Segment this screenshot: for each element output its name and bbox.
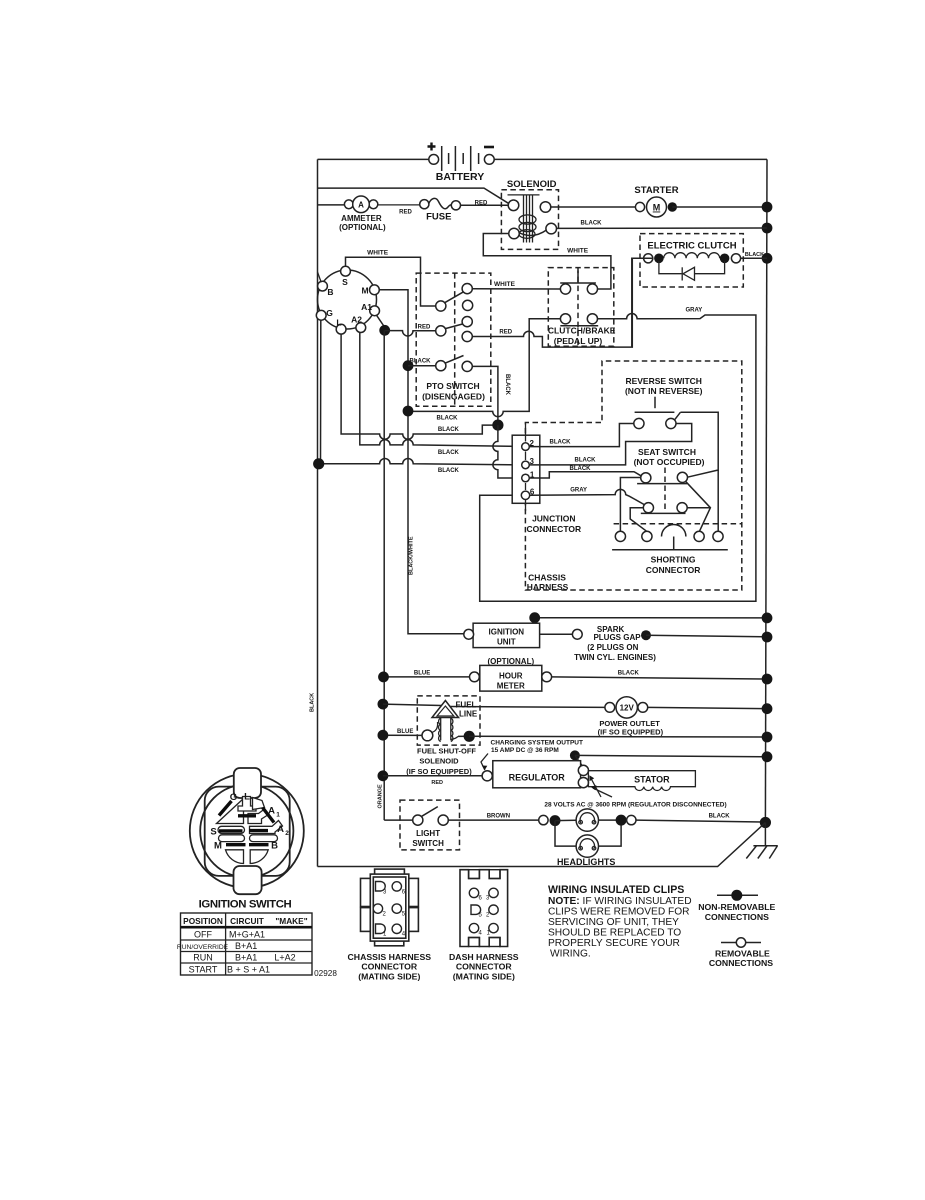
svg-text:28 VOLTS AC @ 3600 RPM (REGULA: 28 VOLTS AC @ 3600 RPM (REGULATOR DISCON… [544, 802, 726, 809]
keyface labels [210, 792, 289, 852]
wire solenoid black to right, BLACK [556, 227, 767, 229]
svg-text:02928: 02928 [314, 969, 337, 978]
svg-text:SWITCH: SWITCH [412, 839, 444, 848]
wire clutch/brake left down to M line, hop [408, 319, 560, 417]
svg-text:WHITE: WHITE [367, 250, 389, 257]
svg-text:BLACK: BLACK [581, 221, 603, 227]
svg-text:6: 6 [479, 896, 483, 902]
svg-text:BLACK: BLACK [438, 450, 460, 456]
svg-text:ORANGE: ORANGE [378, 784, 384, 808]
svg-text:WHITE: WHITE [494, 281, 516, 288]
12V power outlet [598, 697, 773, 737]
svg-text:12V: 12V [620, 704, 635, 713]
svg-text:CONNECTOR: CONNECTOR [646, 565, 701, 575]
clutch/brake box [548, 268, 616, 347]
wire ignition unit ground to right [529, 612, 772, 623]
wire reverse line down to shorting c5 [717, 470, 719, 531]
spark plugs gap [540, 625, 773, 662]
svg-text:PLUGS GAP: PLUGS GAP [593, 633, 641, 642]
svg-text:FUSE: FUSE [426, 212, 451, 223]
wire pin6 gray to seat blade, hop [530, 489, 645, 504]
svg-text:SOLENOID: SOLENOID [419, 757, 459, 766]
svg-text:GRAY: GRAY [570, 488, 587, 494]
svg-text:FUEL: FUEL [456, 701, 477, 710]
svg-text:S: S [342, 277, 348, 287]
svg-text:M: M [653, 203, 661, 213]
svg-text:WHITE: WHITE [567, 248, 589, 255]
svg-text:BLACK/WHITE: BLACK/WHITE [408, 536, 414, 575]
svg-text:M: M [361, 286, 368, 296]
keyway cutouts [217, 797, 283, 864]
svg-text:PTO SWITCH: PTO SWITCH [426, 381, 479, 391]
junction connector J1 [512, 424, 581, 534]
svg-text:A: A [277, 824, 284, 835]
wire second feed line to solenoid [318, 188, 510, 204]
svg-text:(PEDAL UP): (PEDAL UP) [554, 336, 603, 346]
svg-text:B: B [327, 287, 333, 297]
wire seat top-left to shorting c1 [620, 478, 640, 532]
svg-text:L: L [336, 318, 341, 328]
svg-text:RED: RED [418, 325, 431, 331]
svg-text:A: A [268, 806, 275, 817]
node L/PTO junction [492, 420, 503, 431]
svg-text:AMMETER: AMMETER [341, 214, 382, 223]
wire pin3 to reverse switch right staircase [529, 424, 691, 465]
clutch/brake top contact [560, 271, 597, 295]
removable connection symbol [709, 938, 773, 968]
starter [634, 185, 767, 217]
node A1 junction [377, 315, 385, 327]
light switch [384, 800, 459, 850]
svg-text:S: S [210, 827, 216, 838]
contact bars [219, 801, 274, 845]
svg-text:STATOR: STATOR [634, 775, 670, 785]
svg-text:ELECTRIC CLUTCH: ELECTRIC CLUTCH [647, 241, 736, 252]
svg-text:START: START [189, 964, 218, 974]
wire PTO white out to clutch/brake [472, 288, 560, 290]
svg-text:"MAKE": "MAKE" [275, 916, 307, 926]
svg-text:BLACK: BLACK [410, 359, 432, 365]
wire charging line [570, 750, 772, 766]
wire PTO red out, hop, to electric clutch [472, 258, 652, 347]
svg-text:1: 1 [276, 812, 280, 819]
svg-text:CHASSIS HARNESS: CHASSIS HARNESS [348, 952, 432, 962]
wire pin1 to seat switch top-left [529, 472, 641, 478]
svg-text:NON-REMOVABLE: NON-REMOVABLE [698, 902, 775, 912]
wire brown to headlights [448, 819, 539, 821]
svg-text:LINE: LINE [459, 710, 478, 719]
svg-text:SHORTING: SHORTING [651, 555, 696, 565]
svg-text:POSITION: POSITION [183, 916, 223, 926]
svg-text:CONNECTOR: CONNECTOR [526, 524, 581, 534]
svg-text:HOUR: HOUR [499, 672, 523, 681]
wire solenoid coil white down-right [483, 234, 611, 290]
svg-text:SHOULD BE REPLACED TO: SHOULD BE REPLACED TO [548, 928, 681, 939]
key switch body [190, 774, 304, 888]
svg-text:SEAT SWITCH: SEAT SWITCH [638, 447, 696, 457]
charging system output label + arrow [481, 740, 583, 771]
svg-text:(MATING SIDE): (MATING SIDE) [453, 972, 515, 982]
svg-text:RED: RED [499, 330, 512, 336]
svg-text:2: 2 [285, 830, 289, 837]
clutch/brake bottom contact [560, 314, 598, 326]
wire clutch/brake right gray, hop, down right side [480, 314, 756, 602]
svg-text:(NOT IN REVERSE): (NOT IN REVERSE) [625, 386, 703, 396]
svg-text:WIRING INSULATED CLIPS: WIRING INSULATED CLIPS [548, 884, 684, 896]
wire A1 orange vertical [383, 330, 385, 820]
wire A2 black to pin 2, hops [360, 333, 522, 447]
seat switch [634, 447, 705, 513]
chassis harness dashed outline [525, 361, 741, 592]
svg-text:BLACK: BLACK [575, 458, 597, 464]
wire red A1 to PTO with hop [385, 331, 436, 336]
wire M down long (BLACK/WHITE) [379, 290, 464, 634]
wire PTO black in [408, 365, 436, 367]
non-removable connection symbol [698, 890, 775, 922]
wire reverse blade to seat top-right [680, 412, 718, 477]
svg-text:BLACK: BLACK [437, 416, 459, 422]
svg-text:HEADLIGHTS: HEADLIGHTS [557, 857, 616, 867]
svg-text:(MATING SIDE): (MATING SIDE) [358, 972, 420, 982]
svg-text:WIRING.: WIRING. [550, 949, 591, 960]
svg-text:(IF SO EQUIPPED): (IF SO EQUIPPED) [598, 728, 664, 737]
svg-text:BLACK: BLACK [745, 252, 764, 258]
svg-text:BLACK: BLACK [438, 427, 460, 433]
svg-text:BLACK: BLACK [570, 466, 592, 472]
battery [428, 143, 495, 184]
svg-text:L+A2: L+A2 [274, 952, 295, 962]
wire B to left vertical [318, 272, 322, 282]
svg-text:A: A [358, 201, 364, 210]
svg-text:(NOT OCCUPIED): (NOT OCCUPIED) [634, 457, 705, 467]
hour meter [378, 657, 772, 691]
svg-text:BROWN: BROWN [487, 814, 510, 820]
svg-text:FUEL SHUT-OFF: FUEL SHUT-OFF [417, 747, 476, 756]
wire seat top-right blade down to c4 [685, 481, 710, 531]
node M line dot [403, 406, 414, 417]
svg-text:SOLENOID: SOLENOID [507, 179, 557, 190]
svg-text:B + S + A1: B + S + A1 [227, 964, 270, 974]
svg-text:M: M [214, 841, 222, 852]
wire right outer vertical [765, 159, 767, 822]
wire S white to PTO [346, 257, 436, 306]
svg-text:RED: RED [399, 210, 412, 216]
svg-text:15 AMP DC @ 36 RPM: 15 AMP DC @ 36 RPM [491, 747, 559, 754]
fuse [420, 198, 461, 222]
svg-text:M+G+A1: M+G+A1 [229, 930, 265, 940]
node PTO black tap on M line [403, 360, 414, 371]
svg-text:RED: RED [475, 201, 488, 207]
svg-text:METER: METER [497, 682, 525, 691]
svg-text:REVERSE SWITCH: REVERSE SWITCH [625, 376, 702, 386]
svg-text:RUN: RUN [193, 952, 213, 962]
wire left outer vertical [317, 159, 319, 866]
svg-text:(2 PLUGS ON: (2 PLUGS ON [587, 643, 638, 652]
wire pin2 to reverse switch left [529, 424, 634, 447]
svg-text:A2: A2 [351, 315, 362, 325]
svg-text:BLACK: BLACK [310, 693, 316, 712]
wire seat bottom-right to blade point [687, 507, 710, 509]
svg-text:TWIN CYL. ENGINES): TWIN CYL. ENGINES) [574, 653, 656, 662]
svg-text:CHASSIS: CHASSIS [528, 573, 566, 583]
svg-text:RED: RED [431, 780, 443, 786]
svg-text:CONNECTOR: CONNECTOR [456, 962, 513, 972]
headlights [539, 809, 762, 867]
wire PTO black out down to junction [472, 366, 498, 421]
svg-text:BLACK: BLACK [709, 814, 731, 820]
wire ammeter to fuse, RED [378, 204, 420, 206]
fuel line / fuel shut-off solenoid [378, 696, 773, 786]
svg-text:CONNECTOR: CONNECTOR [361, 962, 418, 972]
svg-text:B+A1: B+A1 [235, 941, 257, 951]
svg-text:REMOVABLE: REMOVABLE [715, 948, 770, 958]
svg-text:CLUTCH/BRAKE: CLUTCH/BRAKE [548, 326, 616, 336]
diode D1 [659, 261, 682, 274]
node right vertical dots top [762, 202, 773, 213]
svg-text:BLUE: BLUE [414, 671, 430, 677]
svg-text:CIRCUIT: CIRCUIT [230, 916, 264, 926]
wire seat bottom-left to shorting c2 [630, 508, 647, 532]
ignition switch rotary [316, 266, 379, 334]
shorting connector [612, 525, 728, 576]
svg-text:UNIT: UNIT [497, 638, 516, 647]
svg-text:BLACK: BLACK [618, 671, 640, 677]
svg-text:CONNECTIONS: CONNECTIONS [705, 912, 769, 922]
wire fuse to solenoid, RED [461, 204, 509, 206]
regulator [378, 761, 589, 788]
ignition unit [464, 623, 540, 647]
node G / left vertical [313, 458, 324, 469]
svg-text:OFF: OFF [194, 930, 212, 940]
svg-text:CHARGING SYSTEM OUTPUT: CHARGING SYSTEM OUTPUT [491, 740, 583, 747]
svg-text:G: G [326, 308, 333, 318]
svg-text:BATTERY: BATTERY [436, 171, 484, 183]
svg-text:2: 2 [486, 913, 490, 919]
svg-text:PROPERLY SECURE YOUR: PROPERLY SECURE YOUR [548, 938, 680, 949]
svg-text:L: L [244, 792, 250, 803]
svg-text:B: B [271, 841, 278, 852]
reverse switch [625, 376, 703, 429]
svg-text:BLACK: BLACK [550, 440, 572, 446]
wire 12V feed from orange line [378, 699, 389, 710]
svg-text:(DISENGAGED): (DISENGAGED) [422, 392, 485, 402]
svg-text:SERVICING OF UNIT, THEY: SERVICING OF UNIT, THEY [548, 917, 679, 928]
wire ammeter branch [318, 204, 345, 206]
svg-text:A1: A1 [361, 302, 372, 312]
wire solenoid to starter [551, 206, 635, 208]
svg-text:CLIPS WERE REMOVED FOR: CLIPS WERE REMOVED FOR [548, 907, 690, 918]
svg-text:5: 5 [479, 913, 483, 919]
svg-text:BLACK: BLACK [504, 374, 510, 396]
svg-text:G: G [230, 792, 237, 803]
PTO switch box [416, 273, 491, 406]
svg-text:GRAY: GRAY [686, 308, 703, 314]
svg-text:(IF SO EQUIPPED): (IF SO EQUIPPED) [406, 767, 472, 776]
electric clutch [640, 234, 767, 287]
svg-text:IGNITION SWITCH: IGNITION SWITCH [199, 899, 292, 911]
wire L terminal black, hops [341, 334, 498, 439]
svg-text:JUNCTION: JUNCTION [532, 514, 575, 524]
wire G black to pin 3, hops [321, 320, 522, 465]
PTO switch contacts [436, 284, 473, 372]
svg-text:RUN/OVERRIDE: RUN/OVERRIDE [177, 944, 229, 951]
ammeter [339, 196, 386, 232]
svg-text:CONNECTIONS: CONNECTIONS [709, 958, 773, 968]
svg-text:STARTER: STARTER [634, 185, 678, 196]
svg-text:BLUE: BLUE [397, 729, 413, 735]
ground node and symbol [746, 817, 778, 859]
svg-text:HARNESS: HARNESS [527, 582, 569, 592]
wire battery top line [318, 158, 429, 160]
wire junction leg down to pin 1, hops left [493, 425, 522, 478]
svg-text:IGNITION: IGNITION [489, 628, 525, 637]
solenoid [501, 179, 558, 249]
stator [544, 771, 726, 809]
svg-text:REGULATOR: REGULATOR [509, 773, 566, 783]
svg-text:LIGHT: LIGHT [416, 829, 440, 838]
svg-text:DASH HARNESS: DASH HARNESS [449, 952, 519, 962]
wire bottom return line [318, 823, 766, 867]
svg-text:BLACK: BLACK [438, 468, 460, 474]
wire clutch left down to red feed [632, 258, 644, 347]
svg-text:B+A1: B+A1 [235, 952, 257, 962]
svg-text:(OPTIONAL): (OPTIONAL) [339, 223, 386, 232]
svg-text:NOTE: IF WIRING INSULATED: NOTE: IF WIRING INSULATED [548, 896, 692, 907]
